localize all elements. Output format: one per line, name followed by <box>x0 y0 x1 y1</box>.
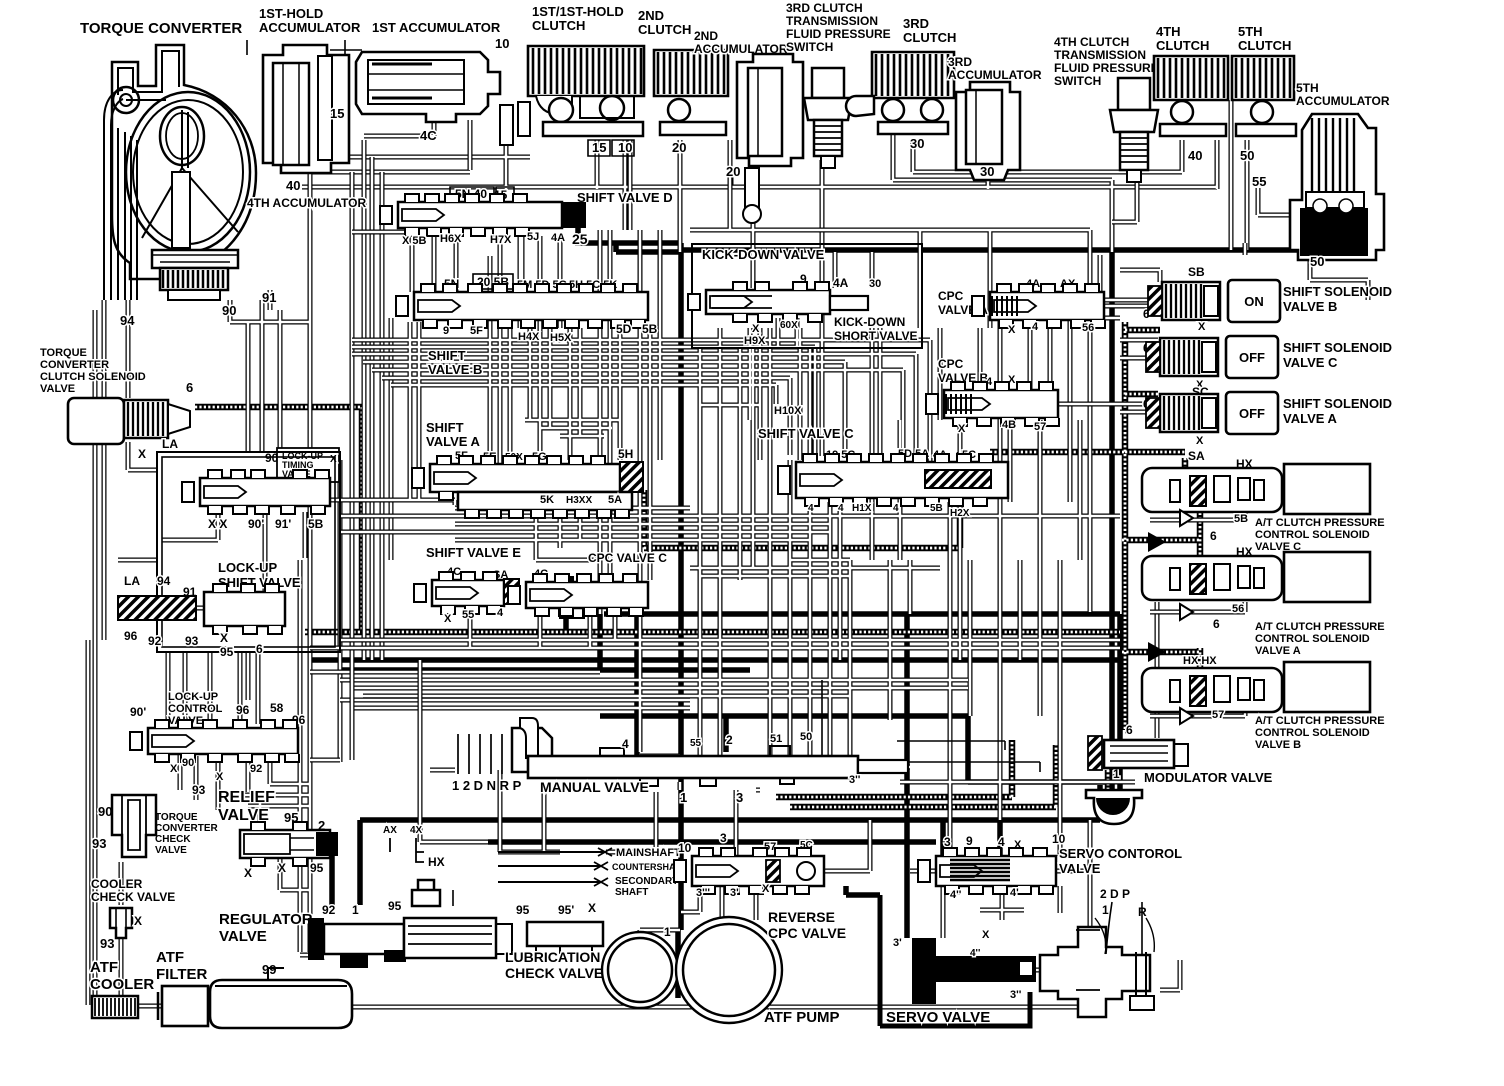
svg-text:CPC: CPC <box>938 289 964 303</box>
svg-text:X: X <box>444 613 452 625</box>
svg-text:CLUTCH: CLUTCH <box>638 22 691 37</box>
svg-text:90': 90' <box>248 517 264 531</box>
svg-text:SWITCH: SWITCH <box>786 40 833 54</box>
svg-text:5B: 5B <box>1234 513 1248 525</box>
svg-text:A/T CLUTCH PRESSURE: A/T CLUTCH PRESSURE <box>1255 517 1385 529</box>
lock-up timing valve <box>182 448 339 531</box>
svg-text:CONTROL SOLENOID: CONTROL SOLENOID <box>1255 727 1370 739</box>
svg-text:30: 30 <box>910 136 924 151</box>
svg-text:4'': 4'' <box>950 889 962 901</box>
svg-text:40: 40 <box>1188 148 1202 163</box>
thin lines <box>247 40 1040 906</box>
svg-text:LA: LA <box>124 574 140 588</box>
svg-text:X: X <box>220 631 228 645</box>
svg-text:TRANSMISSION: TRANSMISSION <box>1054 48 1146 62</box>
svg-text:5TH: 5TH <box>1296 81 1319 95</box>
svg-text:KICK-DOWN VALVE: KICK-DOWN VALVE <box>702 247 825 262</box>
svg-text:VALVE B: VALVE B <box>428 362 482 377</box>
svg-text:H2X: H2X <box>950 508 970 519</box>
svg-text:95: 95 <box>388 899 402 913</box>
a/t clutch pressure control solenoid valve C <box>1142 449 1385 553</box>
svg-text:4: 4 <box>497 607 504 619</box>
svg-text:4: 4 <box>998 835 1005 849</box>
svg-text:KICK-DOWN: KICK-DOWN <box>834 315 905 329</box>
svg-text:VALVE A: VALVE A <box>1255 645 1301 657</box>
svg-text:3: 3 <box>736 790 743 805</box>
svg-text:H3XX: H3XX <box>566 495 592 506</box>
wire top supply bus <box>302 108 1295 252</box>
svg-text:H1X: H1X <box>852 503 872 514</box>
shaft stubs <box>498 847 687 898</box>
svg-text:2ND: 2ND <box>694 29 718 43</box>
svg-text:CLUTCH SOLENOID: CLUTCH SOLENOID <box>40 371 146 383</box>
reverse cpc valve <box>674 831 846 941</box>
svg-text:90: 90 <box>98 804 112 819</box>
svg-text:95: 95 <box>516 903 530 917</box>
svg-text:SHIFT: SHIFT <box>428 348 466 363</box>
svg-text:99: 99 <box>262 962 276 977</box>
svg-text:30: 30 <box>869 278 881 290</box>
svg-text:3: 3 <box>720 831 727 845</box>
svg-text:SERVO CONTOROL: SERVO CONTOROL <box>1059 846 1182 861</box>
svg-text:REGULATOR: REGULATOR <box>219 911 313 928</box>
svg-text:A/T CLUTCH PRESSURE: A/T CLUTCH PRESSURE <box>1255 621 1385 633</box>
svg-text:X: X <box>134 914 142 928</box>
atf pump <box>602 917 840 1026</box>
svg-text:58: 58 <box>270 701 284 715</box>
svg-text:3RD: 3RD <box>948 55 972 69</box>
svg-text:5B: 5B <box>930 503 943 514</box>
svg-text:OFF: OFF <box>1239 350 1265 365</box>
svg-text:X: X <box>278 861 286 875</box>
svg-text:MODULATOR VALVE: MODULATOR VALVE <box>1144 770 1273 785</box>
svg-text:AX: AX <box>383 825 397 836</box>
svg-text:5J: 5J <box>527 231 539 243</box>
svg-text:95': 95' <box>558 903 574 917</box>
svg-text:15: 15 <box>592 140 606 155</box>
svg-text:TRANSMISSION: TRANSMISSION <box>786 14 878 28</box>
svg-text:SHIFT SOLENOID: SHIFT SOLENOID <box>1283 396 1392 411</box>
svg-text:56: 56 <box>1232 603 1244 615</box>
svg-text:5A: 5A <box>608 494 622 506</box>
svg-text:ACCUMULATOR: ACCUMULATOR <box>948 68 1042 82</box>
svg-text:CHECK VALVE: CHECK VALVE <box>505 965 603 981</box>
svg-text:91': 91' <box>275 517 291 531</box>
svg-text:9: 9 <box>443 325 449 337</box>
svg-text:10: 10 <box>678 841 692 855</box>
svg-text:CLUTCH: CLUTCH <box>903 30 956 45</box>
svg-text:X: X <box>1008 324 1016 336</box>
svg-text:93: 93 <box>185 634 199 648</box>
svg-text:X: X <box>588 901 596 915</box>
svg-text:5B: 5B <box>642 322 658 336</box>
svg-text:MANUAL VALVE: MANUAL VALVE <box>540 779 649 795</box>
svg-text:X: X <box>170 763 178 775</box>
svg-text:91: 91 <box>262 290 276 305</box>
svg-text:9: 9 <box>966 834 973 848</box>
lock-up control valve <box>130 691 306 797</box>
svg-text:LA: LA <box>162 437 178 451</box>
svg-text:55: 55 <box>462 609 474 621</box>
svg-text:3'': 3'' <box>849 774 861 786</box>
svg-text:6: 6 <box>1126 723 1133 737</box>
svg-text:X: X <box>330 454 337 465</box>
svg-text:CHECK: CHECK <box>155 834 191 845</box>
svg-text:ON: ON <box>1244 294 1264 309</box>
svg-text:55: 55 <box>1252 174 1266 189</box>
svg-text:4X: 4X <box>410 825 423 836</box>
svg-text:57: 57 <box>1212 709 1224 721</box>
svg-text:CHECK VALVE: CHECK VALVE <box>91 890 175 904</box>
svg-text:CPC VALVE: CPC VALVE <box>768 925 846 941</box>
svg-text:X: X <box>244 866 252 880</box>
svg-text:57: 57 <box>1034 421 1046 433</box>
svg-text:VALVE: VALVE <box>219 928 267 945</box>
svg-text:3RD CLUTCH: 3RD CLUTCH <box>786 1 863 15</box>
svg-text:SHORT VALVE: SHORT VALVE <box>834 329 918 343</box>
cpc valve A <box>938 278 1105 336</box>
svg-text:CPC VALVE C: CPC VALVE C <box>588 551 667 565</box>
svg-text:2 D P: 2 D P <box>1100 887 1130 901</box>
svg-text:TORQUE: TORQUE <box>155 812 198 823</box>
svg-text:15: 15 <box>330 106 344 121</box>
svg-text:4: 4 <box>838 503 844 514</box>
svg-text:X: X <box>982 929 990 941</box>
4th clutch <box>1154 24 1228 163</box>
svg-text:4TH ACCUMULATOR: 4TH ACCUMULATOR <box>247 196 366 210</box>
svg-text:55: 55 <box>690 738 702 749</box>
svg-text:H7X: H7X <box>490 234 512 246</box>
svg-text:X: X <box>138 447 146 461</box>
svg-text:2ND: 2ND <box>638 8 664 23</box>
svg-text:6: 6 <box>1213 617 1220 631</box>
svg-text:SERVO VALVE: SERVO VALVE <box>886 1009 990 1026</box>
svg-text:CONTROL SOLENOID: CONTROL SOLENOID <box>1255 529 1370 541</box>
svg-text:VALVE C: VALVE C <box>1283 355 1338 370</box>
svg-text:50: 50 <box>1240 148 1254 163</box>
servo valve <box>880 887 1154 1026</box>
svg-text:1ST-HOLD: 1ST-HOLD <box>259 6 323 21</box>
svg-text:FLUID PRESSURE: FLUID PRESSURE <box>1054 61 1159 75</box>
shift valve E <box>414 545 548 625</box>
svg-text:FLUID PRESSURE: FLUID PRESSURE <box>786 27 891 41</box>
cooler check valve <box>91 877 175 951</box>
svg-text:1ST/1ST-HOLD: 1ST/1ST-HOLD <box>532 4 624 19</box>
svg-text:30: 30 <box>980 164 994 179</box>
svg-text:REVERSE: REVERSE <box>768 909 835 925</box>
svg-text:25: 25 <box>572 231 588 247</box>
3rd clutch transmission fluid pressure switch <box>786 1 891 168</box>
svg-text:MAINSHAFT: MAINSHAFT <box>616 847 681 859</box>
svg-text:LOCK-UP: LOCK-UP <box>168 691 218 703</box>
a/t clutch pressure control solenoid valve B <box>1142 655 1385 751</box>
svg-text:CONVERTER: CONVERTER <box>155 823 219 834</box>
svg-text:1: 1 <box>664 925 671 939</box>
servo control valve <box>918 832 1182 901</box>
svg-text:VALVE: VALVE <box>155 845 187 856</box>
shift valve A <box>412 420 643 500</box>
svg-text:CONVERTER: CONVERTER <box>40 359 109 371</box>
relief valve <box>218 789 338 880</box>
svg-text:FILTER: FILTER <box>156 966 208 983</box>
kick-down valve <box>688 244 922 348</box>
svg-text:2: 2 <box>726 733 733 747</box>
svg-text:95: 95 <box>220 645 234 659</box>
check valve symbols right column <box>1148 510 1193 724</box>
svg-text:SHIFT SOLENOID: SHIFT SOLENOID <box>1283 340 1392 355</box>
svg-text:56: 56 <box>1082 322 1094 334</box>
svg-text:CLUTCH: CLUTCH <box>1156 38 1209 53</box>
svg-text:4C: 4C <box>420 128 437 143</box>
2nd accumulator <box>694 29 803 223</box>
svg-text:4B: 4B <box>1002 419 1016 431</box>
svg-text:90: 90 <box>222 303 236 318</box>
svg-text:CONTROL: CONTROL <box>168 703 223 715</box>
svg-text:1 2 D N R P: 1 2 D N R P <box>452 778 522 793</box>
svg-text:3': 3' <box>730 887 739 899</box>
svg-text:TORQUE: TORQUE <box>40 347 87 359</box>
lubrication check valve <box>505 901 603 981</box>
1st/1st-hold clutch <box>528 4 644 156</box>
svg-text:X X: X X <box>208 517 227 531</box>
svg-text:94: 94 <box>120 313 135 328</box>
svg-text:50: 50 <box>800 731 812 743</box>
svg-text:X: X <box>752 323 760 335</box>
svg-text:95: 95 <box>310 861 324 875</box>
wires lower centre <box>310 660 1180 990</box>
modulator valve <box>1086 723 1273 824</box>
svg-text:ATF: ATF <box>156 949 184 966</box>
svg-text:COOLER: COOLER <box>91 877 143 891</box>
svg-text:5D: 5D <box>616 322 632 336</box>
1st-hold accumulator <box>259 6 361 173</box>
svg-text:3''': 3''' <box>696 887 710 899</box>
svg-text:ATF PUMP: ATF PUMP <box>764 1009 840 1026</box>
svg-text:4'': 4'' <box>970 948 980 959</box>
svg-text:10: 10 <box>495 36 509 51</box>
wires torque converter and left column <box>88 140 1090 1007</box>
torque converter <box>80 20 256 300</box>
svg-text:5B: 5B <box>308 517 324 531</box>
svg-text:VALVE B: VALVE B <box>1255 739 1301 751</box>
svg-text:4A: 4A <box>833 276 849 290</box>
svg-text:CLUTCH: CLUTCH <box>532 18 585 33</box>
svg-text:VALVE A: VALVE A <box>1283 411 1338 426</box>
svg-text:5K: 5K <box>540 494 554 506</box>
svg-text:92: 92 <box>148 634 162 648</box>
lock-up region frame <box>157 452 340 652</box>
svg-text:CPC: CPC <box>938 357 964 371</box>
atf cooler <box>90 959 154 1018</box>
svg-text:3'': 3'' <box>1010 989 1022 1001</box>
svg-text:4': 4' <box>1010 887 1019 899</box>
svg-text:VALVE A: VALVE A <box>426 434 481 449</box>
2nd clutch <box>638 8 728 155</box>
svg-text:RELIEF: RELIEF <box>218 789 275 806</box>
svg-text:CLUTCH: CLUTCH <box>1238 38 1291 53</box>
svg-text:4A: 4A <box>551 232 565 244</box>
svg-text:94: 94 <box>157 574 171 588</box>
svg-text:6: 6 <box>1210 529 1217 543</box>
svg-text:X: X <box>216 771 224 783</box>
shift solenoid valve A <box>1143 392 1392 447</box>
oil pan 99 <box>210 962 352 1028</box>
3rd accumulator <box>948 55 1042 180</box>
svg-text:4: 4 <box>808 503 814 514</box>
svg-text:96: 96 <box>236 703 250 717</box>
svg-text:3RD: 3RD <box>903 16 929 31</box>
shift valve D <box>380 187 673 247</box>
hatched passages <box>195 322 1200 807</box>
manual valve <box>452 718 908 805</box>
5th clutch <box>1232 24 1296 163</box>
svg-text:1ST ACCUMULATOR: 1ST ACCUMULATOR <box>372 20 501 35</box>
svg-text:SWITCH: SWITCH <box>1054 74 1101 88</box>
wires right column <box>1058 100 1368 716</box>
svg-text:SHIFT SOLENOID: SHIFT SOLENOID <box>1283 284 1392 299</box>
svg-text:SHIFT VALVE E: SHIFT VALVE E <box>426 545 521 560</box>
svg-text:5TH: 5TH <box>1238 24 1263 39</box>
regulator valve <box>219 880 512 968</box>
svg-text:96: 96 <box>124 629 138 643</box>
svg-text:6: 6 <box>256 642 263 656</box>
svg-text:4: 4 <box>1032 321 1039 333</box>
svg-text:1: 1 <box>352 903 359 917</box>
svg-text:ACCUMULATOR: ACCUMULATOR <box>259 20 361 35</box>
svg-text:10: 10 <box>618 140 632 155</box>
svg-text:H9X: H9X <box>744 335 766 347</box>
svg-text:SECONDARY: SECONDARY <box>615 876 679 887</box>
svg-text:60X: 60X <box>780 320 798 331</box>
thick pressure lines <box>310 226 1310 998</box>
svg-text:SHIFT VALVE D: SHIFT VALVE D <box>577 190 673 205</box>
svg-text:HX: HX <box>428 855 445 869</box>
svg-text:H6X: H6X <box>440 233 462 245</box>
svg-text:50: 50 <box>1310 254 1324 269</box>
svg-text:OFF: OFF <box>1239 406 1265 421</box>
svg-text:51: 51 <box>770 733 782 745</box>
shift valve A lower spool <box>458 492 632 518</box>
svg-text:H10X: H10X <box>774 405 802 417</box>
svg-text:H4X: H4X <box>518 331 540 343</box>
svg-text:SHIFT VALVE C: SHIFT VALVE C <box>758 426 854 441</box>
svg-text:93: 93 <box>192 783 206 797</box>
svg-text:1: 1 <box>680 790 687 805</box>
svg-text:CONTROL SOLENOID: CONTROL SOLENOID <box>1255 633 1370 645</box>
svg-text:X: X <box>1196 435 1204 447</box>
svg-text:H5X: H5X <box>550 332 572 344</box>
svg-text:90': 90' <box>130 705 146 719</box>
svg-text:90: 90 <box>182 757 194 769</box>
svg-text:SB: SB <box>1188 265 1205 279</box>
atf filter <box>156 949 212 1026</box>
svg-text:VALVE B: VALVE B <box>1283 299 1337 314</box>
lock-up shift valve <box>118 560 301 659</box>
svg-text:1: 1 <box>1102 903 1109 917</box>
cpc valve B <box>926 357 1059 435</box>
wires centre valve mesh <box>310 95 1157 856</box>
svg-text:20: 20 <box>672 140 686 155</box>
a/t clutch pressure control solenoid valve A <box>1142 545 1385 657</box>
svg-text:93: 93 <box>92 836 106 851</box>
svg-text:SHIFT: SHIFT <box>426 420 464 435</box>
svg-text:93: 93 <box>100 936 114 951</box>
svg-text:COOLER: COOLER <box>90 976 154 993</box>
svg-text:5H: 5H <box>618 447 633 461</box>
svg-text:6: 6 <box>186 380 193 395</box>
svg-text:X: X <box>1198 321 1206 333</box>
svg-text:SHIFT VALVE: SHIFT VALVE <box>218 575 301 590</box>
svg-text:VALVE: VALVE <box>1059 861 1101 876</box>
torque converter clutch solenoid valve <box>40 347 193 461</box>
svg-text:20: 20 <box>726 164 740 179</box>
svg-text:X: X <box>762 883 770 895</box>
shift valve B <box>396 274 658 377</box>
svg-text:X 5B: X 5B <box>402 235 427 247</box>
svg-text:4TH: 4TH <box>1156 24 1181 39</box>
svg-text:A/T CLUTCH PRESSURE: A/T CLUTCH PRESSURE <box>1255 715 1385 727</box>
shift valve C <box>758 426 1008 519</box>
svg-text:3: 3 <box>944 835 951 849</box>
svg-text:ATF: ATF <box>90 959 118 976</box>
svg-text:ACCUMULATOR: ACCUMULATOR <box>1296 94 1390 108</box>
svg-text:4: 4 <box>893 503 899 514</box>
svg-text:4: 4 <box>622 737 629 751</box>
svg-text:4TH CLUTCH: 4TH CLUTCH <box>1054 35 1129 49</box>
svg-text:40: 40 <box>286 178 300 193</box>
svg-text:10: 10 <box>1052 832 1066 846</box>
shift solenoid valve B <box>1143 265 1392 333</box>
shift solenoid valve C <box>1143 336 1392 399</box>
5th accumulator <box>1252 81 1390 269</box>
svg-text:HX HX: HX HX <box>1183 655 1217 667</box>
svg-text:92: 92 <box>322 903 336 917</box>
svg-text:LOCK-UP: LOCK-UP <box>218 560 278 575</box>
4th clutch transmission fluid pressure switch <box>1054 35 1159 182</box>
torque converter check valve <box>92 795 219 857</box>
svg-text:VALVE: VALVE <box>40 383 75 395</box>
svg-text:SHAFT: SHAFT <box>615 887 648 898</box>
svg-text:92: 92 <box>250 763 262 775</box>
1st accumulator <box>356 20 530 145</box>
3rd clutch <box>846 16 956 151</box>
svg-text:3': 3' <box>893 937 902 949</box>
svg-text:X: X <box>958 423 966 435</box>
svg-text:LUBRICATION: LUBRICATION <box>505 949 600 965</box>
svg-text:SA: SA <box>1188 449 1205 463</box>
cpc valve C <box>508 551 667 618</box>
svg-text:TORQUE CONVERTER: TORQUE CONVERTER <box>80 20 242 37</box>
svg-text:5F: 5F <box>470 325 483 337</box>
